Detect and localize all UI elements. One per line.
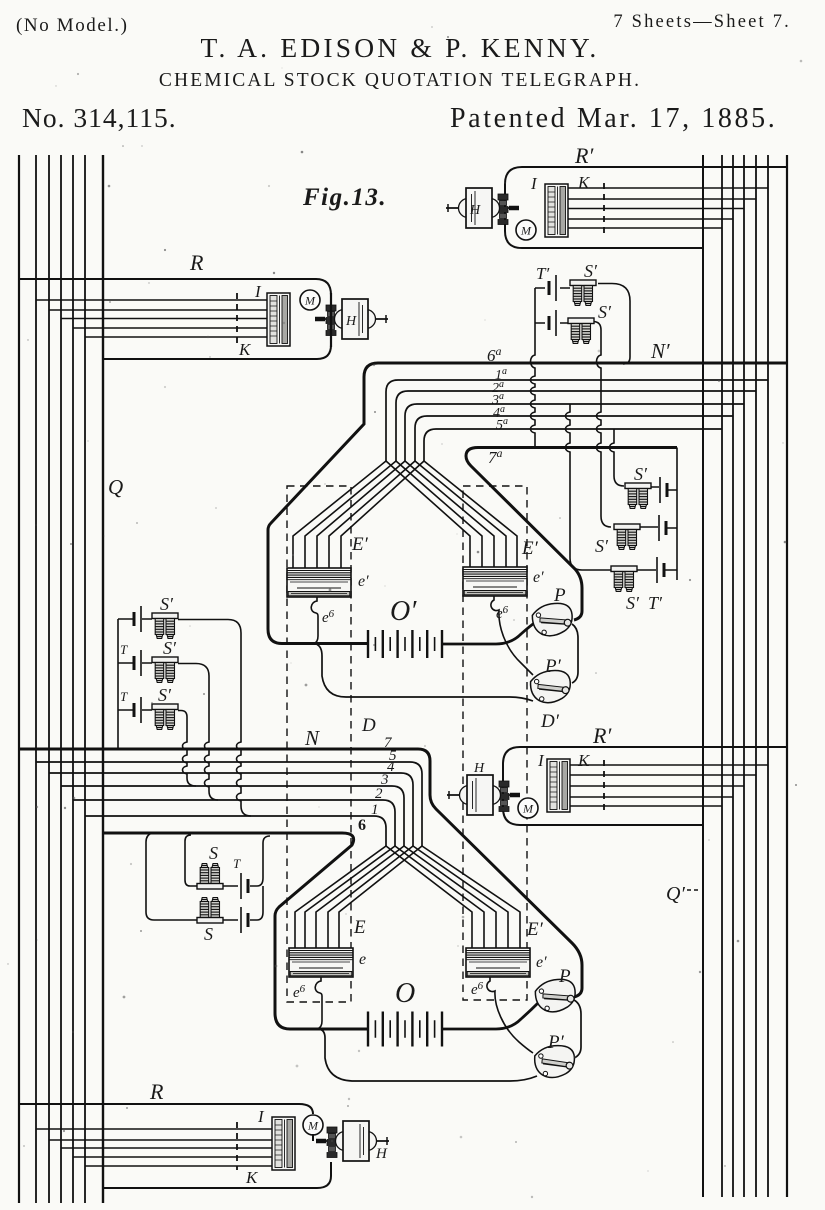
battery T lower row2 <box>241 907 248 933</box>
battery T left row3 <box>134 697 141 723</box>
battery T' row1 <box>660 477 667 503</box>
svg-text:R: R <box>149 1079 164 1104</box>
svg-text:H: H <box>345 314 357 329</box>
lower S group: inverted magnet S row1 <box>197 864 223 890</box>
svg-text:S′: S′ <box>634 464 648 484</box>
top S' group row2: feeder stub and coil lead to lower S' row2 <box>535 322 611 528</box>
dashed enclosure D (left) <box>287 486 351 1002</box>
svg-text:Q: Q <box>108 475 123 499</box>
wire: R' top lead to right bus line 7 <box>505 167 787 248</box>
svg-text:e6: e6 <box>322 608 335 626</box>
svg-text:T′: T′ <box>648 593 663 613</box>
wire: 5a branch to magnet S' row1 <box>610 429 625 486</box>
wire: Q' pointer dash <box>687 889 699 891</box>
left S' group: common feeder <box>117 619 119 749</box>
svg-text:Patented Mar. 17, 1885.: Patented Mar. 17, 1885. <box>450 103 777 134</box>
battery T' top row1 <box>549 275 556 301</box>
wire: right bus line 1 <box>702 155 704 1197</box>
wire: R' coil lead a <box>568 187 768 189</box>
svg-text:S′: S′ <box>163 638 177 658</box>
wire: R' top lead to right bus <box>503 747 787 825</box>
svg-text:E′: E′ <box>526 919 544 940</box>
wire: S row1 left riser to wire 6 <box>185 835 197 886</box>
motor M of relay R <box>300 290 320 310</box>
svg-text:O′: O′ <box>390 596 417 627</box>
wire: right bus line 7 <box>786 155 788 1197</box>
wire 4a <box>415 416 733 461</box>
wire 1 <box>85 816 386 846</box>
svg-text:e: e <box>359 951 366 968</box>
wire: R top lead from bus line 1 <box>19 279 331 295</box>
wire: left bus line 1 <box>18 155 20 1203</box>
svg-text:K: K <box>245 1168 259 1187</box>
relay P <box>533 976 579 1015</box>
svg-text:T. A. EDISON & P. KENNY.: T. A. EDISON & P. KENNY. <box>201 32 600 63</box>
svg-text:E: E <box>353 917 366 938</box>
svg-text:I: I <box>530 174 538 193</box>
svg-text:e′: e′ <box>536 954 547 971</box>
svg-text:T′: T′ <box>536 264 549 283</box>
svg-text:CHEMICAL STOCK QUOTATION TELEG: CHEMICAL STOCK QUOTATION TELEGRAPH. <box>159 70 641 91</box>
wire: fan diagonals to magnet E' <box>386 846 520 965</box>
svg-text:P: P <box>558 966 571 987</box>
svg-text:S′: S′ <box>584 261 598 281</box>
transmitter H of middle R' <box>447 775 520 815</box>
magnet S' row3 <box>611 566 637 592</box>
svg-text:P: P <box>553 585 566 606</box>
wire: R' coil lead e <box>570 805 722 807</box>
svg-text:S′: S′ <box>626 593 640 613</box>
coil box I/K of relay R <box>267 293 290 346</box>
svg-text:D: D <box>361 715 376 736</box>
magnet S' left row3 <box>152 704 178 730</box>
wire: P to P' link <box>574 1000 581 1058</box>
svg-text:No. 314,115.: No. 314,115. <box>22 102 177 133</box>
wire: left bus line 5 <box>72 155 74 1203</box>
wire 6 : thick loop to left magnet E and battery O <box>103 833 368 1029</box>
svg-text:6: 6 <box>358 817 366 834</box>
svg-text:O: O <box>395 978 415 1009</box>
wire: R' coil lead d <box>568 218 733 220</box>
battery T' row2 <box>659 515 666 541</box>
electromagnet E (left) <box>289 948 353 977</box>
svg-text:I: I <box>254 282 262 301</box>
svg-text:e′: e′ <box>533 569 544 586</box>
wire: row2 coil to battery <box>640 527 677 528</box>
svg-text:2: 2 <box>375 786 383 802</box>
relay P <box>530 600 576 639</box>
wire: R top lead from bus line 1 <box>19 1104 313 1114</box>
magnet S' row1 <box>625 483 651 509</box>
svg-text:R: R <box>189 250 204 275</box>
svg-text:e6: e6 <box>293 983 306 1001</box>
wire: P' return to battery junction <box>317 645 533 702</box>
svg-text:(No Model.): (No Model.) <box>16 15 129 36</box>
battery T lower <box>241 873 248 899</box>
magnet S' left row2 <box>152 657 178 683</box>
wire: fan diagonals to magnet E <box>295 846 422 966</box>
wire: R coil lead b <box>49 1139 273 1141</box>
battery T left row1 <box>134 606 141 632</box>
node: break marks on R leads <box>236 293 238 345</box>
svg-text:S: S <box>209 843 218 863</box>
svg-text:S: S <box>204 924 213 944</box>
wire: R coil lead e <box>85 1165 273 1167</box>
svg-text:R′: R′ <box>592 723 612 748</box>
wire: R' coil lead c <box>568 208 744 210</box>
electromagnet E' (right) <box>466 948 530 977</box>
wire: left bus line 4 <box>60 155 62 1203</box>
wire: R coil lead a <box>36 299 268 301</box>
wire: S row1 to battery T <box>223 885 257 887</box>
wire 5a <box>424 429 722 461</box>
wire: 3a branch to magnet S' row3 <box>566 404 612 570</box>
wire 6a : thick loop to left magnet and battery O' <box>268 363 787 644</box>
wire: battery column riser to wire 6 <box>250 836 270 920</box>
svg-text:e′: e′ <box>358 573 369 590</box>
motor M of middle R' <box>518 798 538 818</box>
svg-text:E′: E′ <box>521 538 539 559</box>
wire: battery right lead to P <box>442 621 537 644</box>
svg-text:S′: S′ <box>160 594 174 614</box>
wire: R coil lead d <box>73 327 268 329</box>
wire: R coil lead b <box>49 309 268 311</box>
svg-text:S′: S′ <box>595 536 609 556</box>
wire: R coil lead a <box>36 1128 273 1130</box>
transmitter H of relay R <box>315 299 388 339</box>
svg-text:T: T <box>120 642 128 657</box>
wire: right bus line 3 <box>732 155 734 1197</box>
node: break marks on R' leads <box>603 183 605 233</box>
wire: row3 coil to battery <box>637 569 677 571</box>
svg-text:N′: N′ <box>650 339 670 363</box>
coil box I/K of bottom R <box>272 1117 295 1170</box>
svg-text:e6: e6 <box>496 604 509 622</box>
wire: R' coil lead e <box>568 227 722 229</box>
wire: e6 hook right <box>487 977 533 1053</box>
wire: e6 hook left <box>311 597 318 644</box>
wire: right bus line 2 <box>721 155 723 1197</box>
motor M of relay R' <box>516 220 536 240</box>
magnet S' top row1 <box>570 280 596 306</box>
wire 4 <box>49 773 413 846</box>
wire: left bus line 2 <box>35 155 37 1203</box>
svg-text:H: H <box>469 203 481 218</box>
wire: R' coil lead c <box>570 785 744 787</box>
node: break marks on R leads <box>236 1122 238 1170</box>
relay P' <box>528 668 573 706</box>
svg-text:Q′: Q′ <box>666 883 685 905</box>
battery T' row3 <box>657 557 664 583</box>
wire: left row3 to lower wire 3 with hops <box>178 711 196 787</box>
svg-text:7 Sheets—Sheet 7.: 7 Sheets—Sheet 7. <box>613 12 791 32</box>
wire: S row2 to battery <box>223 919 238 921</box>
wire: S row2 left riser from wire 6 <box>146 833 197 920</box>
svg-text:K: K <box>577 751 591 770</box>
node: break marks on R' leads <box>603 760 605 810</box>
wire: fan diagonals to right magnet E' <box>386 461 517 585</box>
svg-text:I: I <box>537 751 545 770</box>
svg-text:S′: S′ <box>598 302 612 322</box>
coil box I/K of relay R' <box>545 184 568 237</box>
relay P' <box>533 1043 577 1080</box>
svg-text:S′: S′ <box>158 685 172 705</box>
svg-text:T: T <box>120 689 128 704</box>
dashed enclosure D' (right) <box>463 486 527 1000</box>
svg-text:7a: 7a <box>488 446 503 467</box>
wire 3a <box>405 404 744 461</box>
lower S group: inverted magnet S row2 <box>197 898 223 924</box>
wire: right bus line 4 <box>743 155 745 1197</box>
svg-text:T: T <box>233 856 241 871</box>
wire: right bus line 6 <box>767 155 769 1197</box>
electromagnet E' (right) <box>463 567 527 596</box>
battery T' top row2 <box>549 310 556 336</box>
left S' row3: wire battery to coil <box>118 709 152 711</box>
wire: R bottom return lead from bus line 7 <box>103 345 331 359</box>
svg-text:E′: E′ <box>351 534 369 555</box>
transmitter H of relay R' <box>446 188 519 228</box>
svg-text:H: H <box>473 761 485 776</box>
wire: e6 hook right <box>491 596 533 675</box>
wire: T' battery column from 7a <box>676 448 678 581</box>
magnet S' top row2 <box>568 318 594 344</box>
wire 7 : thick loop to relay P <box>19 749 582 997</box>
wire 3 <box>61 786 404 846</box>
wire: R coil lead c <box>61 318 268 320</box>
wire 2a <box>396 391 756 461</box>
wire: battery right lead to P <box>442 1003 538 1029</box>
wire 2 <box>73 800 395 846</box>
left S' row2: wire battery to coil <box>118 662 152 664</box>
coil box I/K of middle R' <box>547 759 570 812</box>
svg-text:P′: P′ <box>544 656 562 677</box>
battery O <box>368 1012 442 1047</box>
wire 5 <box>36 762 422 846</box>
wire: R coil lead c <box>61 1147 273 1149</box>
top S' group row1: feeder stub and coil lead <box>535 284 630 365</box>
svg-text:D′: D′ <box>540 711 560 732</box>
wire: left row2 to lower wire 2 with hops <box>178 664 218 801</box>
battery O' <box>368 630 442 658</box>
wire: fan diagonals to left magnet E' <box>293 461 424 586</box>
svg-text:R′: R′ <box>574 143 594 168</box>
wire: R bottom return from bus line 7 <box>103 1162 331 1188</box>
svg-text:5a: 5a <box>496 416 508 433</box>
svg-text:K: K <box>238 340 252 359</box>
wire: R' coil lead d <box>570 796 733 798</box>
wire: left bus line 7 <box>102 155 104 1203</box>
wire: P' return loop to battery junction <box>319 1029 537 1081</box>
wire: P to P' link <box>572 624 578 683</box>
motor M of bottom R <box>303 1115 323 1135</box>
wire: left row1 to lower wire 1 with hops <box>178 620 251 817</box>
wire: row1 coil to battery <box>651 487 677 490</box>
svg-text:N: N <box>304 726 320 750</box>
wire: R coil lead d <box>73 1156 273 1158</box>
magnet S' row2 <box>614 524 640 550</box>
wire 1a <box>386 380 768 461</box>
left S' row1: wire battery to coil <box>118 618 152 620</box>
magnet S' left row1 <box>152 613 178 639</box>
svg-text:1: 1 <box>371 802 379 818</box>
svg-text:Fig.13.: Fig.13. <box>302 184 387 211</box>
svg-text:H: H <box>375 1146 388 1162</box>
wire: common feeder of top S' group down to 7a with hops <box>531 288 536 448</box>
wire: R' coil lead b <box>568 198 756 200</box>
wire: R coil lead e <box>85 336 268 338</box>
wire: e6 hook left <box>315 977 322 1029</box>
electromagnet E' (left) <box>287 568 351 597</box>
battery T left row2 <box>134 650 141 676</box>
transmitter H of bottom R <box>316 1121 389 1161</box>
svg-text:K: K <box>577 173 591 192</box>
wire 7a : thick loop to P relay <box>466 448 677 621</box>
svg-text:P′: P′ <box>547 1032 565 1053</box>
wire: R' coil lead b <box>570 774 756 776</box>
svg-text:I: I <box>257 1107 265 1126</box>
wire: left bus line 6 <box>84 155 86 1203</box>
svg-text:e6: e6 <box>471 980 484 998</box>
wire: left bus line 3 <box>48 155 50 1203</box>
wire: R' coil lead a <box>570 764 768 766</box>
wire: right bus line 5 <box>755 155 757 1197</box>
